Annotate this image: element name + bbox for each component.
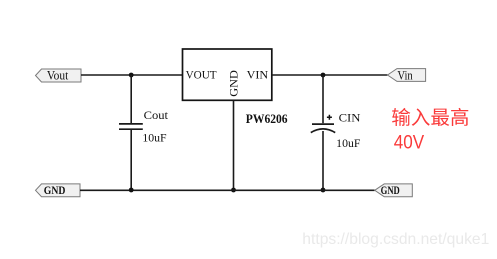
svg-text:https://blog.csdn.net/quke1: https://blog.csdn.net/quke1 <box>302 231 489 248</box>
wire Vout to U1 VOUT pin <box>81 74 183 76</box>
ground rail wire <box>80 189 375 191</box>
svg-text:Vin: Vin <box>397 68 412 82</box>
wire Cout top <box>130 75 132 123</box>
junction node Cout / bottom rail <box>129 188 134 193</box>
svg-text:GND: GND <box>44 183 66 197</box>
net flag Vin <box>388 68 426 82</box>
regulator IC U1 PW6206 body <box>183 49 272 100</box>
svg-text:40V: 40V <box>394 132 425 153</box>
annotation text 输入最高 (red) <box>392 108 468 126</box>
svg-text:PW6206: PW6206 <box>246 111 288 126</box>
svg-text:VIN: VIN <box>247 69 269 82</box>
wire Cout bottom <box>130 130 132 190</box>
capacitor C1 CIN (polarized) <box>311 115 335 133</box>
wire CIN top <box>322 75 324 123</box>
wire CIN bottom <box>322 131 324 190</box>
svg-text:VOUT: VOUT <box>186 69 217 82</box>
wire U1 VIN pin to Vin flag <box>272 74 388 76</box>
capacitor Cout <box>119 124 143 129</box>
net flag GND (left) <box>36 183 81 197</box>
junction node Vin/CIN <box>321 73 326 78</box>
svg-text:CIN: CIN <box>339 113 361 125</box>
junction node GND pin / bottom rail <box>231 188 236 193</box>
net flag Vout <box>36 68 82 82</box>
junction node Vout/Cout <box>129 73 134 78</box>
svg-text:Vout: Vout <box>47 68 69 82</box>
net flag GND (right) <box>375 183 413 197</box>
wire U1 GND pin down <box>233 100 235 190</box>
svg-text:10uF: 10uF <box>142 133 166 145</box>
svg-text:GND: GND <box>227 70 240 97</box>
svg-text:10uF: 10uF <box>336 138 360 150</box>
svg-text:GND: GND <box>381 183 400 197</box>
junction node CIN / bottom rail <box>321 188 326 193</box>
svg-text:Cout: Cout <box>144 110 169 122</box>
